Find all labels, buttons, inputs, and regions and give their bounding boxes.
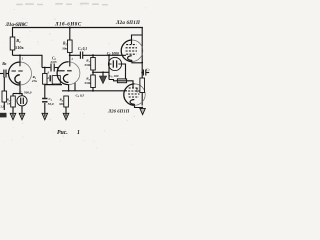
wire cathode bias bus V1 [13,93,22,95]
svg-text:510к: 510к [15,45,24,50]
capacitor C3 electrolytic [17,96,27,106]
svg-text:1: 1 [77,130,80,136]
wire C6 branch [109,80,133,89]
resistor R4 cathode V2 [64,96,69,107]
tube V3b output lower pentode [124,84,145,105]
svg-text:30к: 30к [61,47,67,51]
resistor input grid leak [2,91,7,102]
ground under R4 [63,113,69,120]
resistor R1 [10,37,15,50]
svg-text:Л1б-6Н8С: Л1б-6Н8С [54,20,82,27]
node C7 tap [141,72,143,74]
wire cathode V3a [132,60,142,62]
wire divider top lead [92,55,94,57]
wire R2 leads [12,94,14,97]
wire cathode cap to ground [44,103,46,113]
svg-text:47к: 47к [31,79,37,83]
resistor R8 divider lower [91,75,96,88]
wire second cathode lead V2 [74,83,76,91]
resistor R2 cathode V1 [11,96,16,107]
ground arrows [10,108,145,119]
capacitor C7 output [143,70,145,76]
capacitor C1 (input) [4,70,6,78]
wire R1 top lead [12,28,14,38]
wire cathode bias bottom V2 [45,84,62,86]
node R5 rail junction [69,27,71,29]
wire C7 out [146,72,149,74]
svg-text:330к: 330к [83,81,91,85]
wire cathode lead V1 [19,81,21,94]
ground under R2 [10,113,16,120]
resistor cathode V2 box [52,76,60,84]
wire node to C2 [13,55,43,67]
left edge artifact [0,113,7,118]
node V1 cathode [19,93,21,95]
wire input cap to grid [6,73,8,75]
svg-text:Рис.: Рис. [57,130,68,136]
node V2 cathode bus [68,90,70,92]
node divider mid [92,71,94,73]
capacitor C5 in circle [108,57,121,70]
faint top smudges [16,3,108,6]
wire input grid resistor leads [3,77,5,91]
wire ground shafts [12,113,14,117]
wire R1 bottom to node [12,50,14,55]
capacitor C4 [80,52,82,59]
ground bottom right [140,108,145,114]
svg-text:50,0: 50,0 [48,102,54,106]
svg-text:1,0: 1,0 [0,105,5,109]
wire anode node to C4 [70,54,80,56]
node divider top [92,54,94,56]
svg-text:1к: 1к [7,102,11,106]
resistor R300 common cathode [140,78,145,93]
svg-text:Л2б 6П1П: Л2б 6П1П [107,108,130,113]
wire R5 top [69,28,71,41]
wire cathode V3b [135,104,143,107]
wire C2 right to grid V2 [55,68,60,71]
wire cathode bus [62,90,127,92]
tube V3a output upper pentode [121,40,143,62]
node ground tap [102,71,104,73]
ground under C3 [19,113,25,120]
wire cathode lead V2 [68,84,70,91]
node V3a cathode rail [141,62,143,64]
svg-text:Вх: Вх [1,62,6,66]
node C5 branch top [108,54,110,56]
svg-text:Л1а-6Н8С: Л1а-6Н8С [5,22,29,28]
svg-text:Л2а 6П1П: Л2а 6П1П [115,21,141,26]
ground divider tap [99,76,106,84]
paper background [0,0,150,150]
wire R4 bottom [65,107,67,113]
svg-text:0,05: 0,05 [51,60,57,64]
ground under cathode cap [42,113,48,120]
wire C7 tap [141,72,144,74]
capacitor cathode V2 plate [49,75,51,81]
wire C2 left [42,67,50,69]
resistor R7 divider upper [91,58,96,71]
wire R3 bottom lead [44,84,46,98]
resistor R3 grid leak V2 [43,74,47,85]
resistor R5 anode load V2 [68,40,73,53]
wire C5 left lead [108,55,110,79]
wire divider bottom [92,88,94,91]
tube V1 triode [9,55,32,85]
node V1 anode [19,54,21,56]
svg-text:300: 300 [135,87,139,93]
wire input [0,73,3,75]
wire C5 right lead [121,64,125,80]
node V2 anode [69,54,71,56]
paper speckle (decorative) [1,3,146,148]
svg-text:330к: 330к [83,63,91,67]
pin number marks [22,57,74,80]
capacitor cathode bypass (flat plates) [42,99,47,102]
wire divider middle [92,70,94,75]
wire C3 leads [21,94,23,96]
node divider bottom bus [92,90,94,92]
wire C4 to grid V3a [83,54,126,56]
wire anode jog tube V3a [132,35,143,44]
wire right rail down [141,28,143,79]
wire B+ top rail [12,27,143,29]
capacitor C6 [117,79,126,83]
capacitor C2 [51,64,54,72]
tube V2 triode [57,53,80,85]
node V3b cathode rail [141,107,143,109]
wire R3 top lead [44,68,46,74]
svg-text:300: 300 [58,102,64,106]
node V2 grid [44,67,46,69]
wire divider mid tap [93,71,109,73]
